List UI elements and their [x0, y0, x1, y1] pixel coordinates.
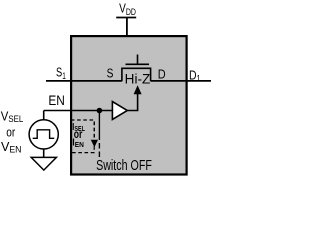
wire below dot (dashed to Switch OFF) — [98, 135, 100, 158]
pulse symbol — [33, 130, 55, 139]
wire S1 to switch (left segment) — [46, 80, 122, 82]
dashed current label box — [71, 120, 94, 153]
svg-text:or: or — [74, 127, 83, 141]
svg-text:Hi-Z: Hi-Z — [125, 71, 151, 86]
wire EN down to source — [43, 111, 45, 121]
gate stub — [137, 55, 139, 65]
switch IC body (gray box) — [71, 36, 187, 174]
gate drive arrowhead (up) — [134, 85, 142, 94]
wire source to ground — [43, 149, 45, 158]
VDD power bar — [116, 17, 136, 19]
svg-text:IEN: IEN — [72, 137, 84, 148]
wire switch to D1 (right segment) — [151, 80, 211, 82]
svg-text:D: D — [158, 66, 166, 81]
ground — [31, 157, 56, 170]
svg-text:Switch OFF: Switch OFF — [96, 158, 152, 174]
wire VDD to box — [126, 18, 128, 37]
current arrow shaft (dashed) — [93, 122, 95, 141]
switch channel bridge over Hi-Z — [122, 68, 151, 81]
wire below dot (solid part) — [98, 111, 100, 135]
gate drive arrow shaft — [127, 94, 138, 111]
svg-text:EN: EN — [48, 93, 65, 108]
buffer U1 — [112, 102, 127, 120]
junction dot — [97, 108, 103, 114]
wire EN — [44, 110, 113, 112]
svg-text:S: S — [107, 67, 114, 81]
source VSEL/VEN circle — [29, 120, 58, 149]
gate bar — [126, 63, 150, 65]
svg-text:or: or — [6, 124, 16, 139]
current arrowhead (down) — [91, 140, 98, 147]
